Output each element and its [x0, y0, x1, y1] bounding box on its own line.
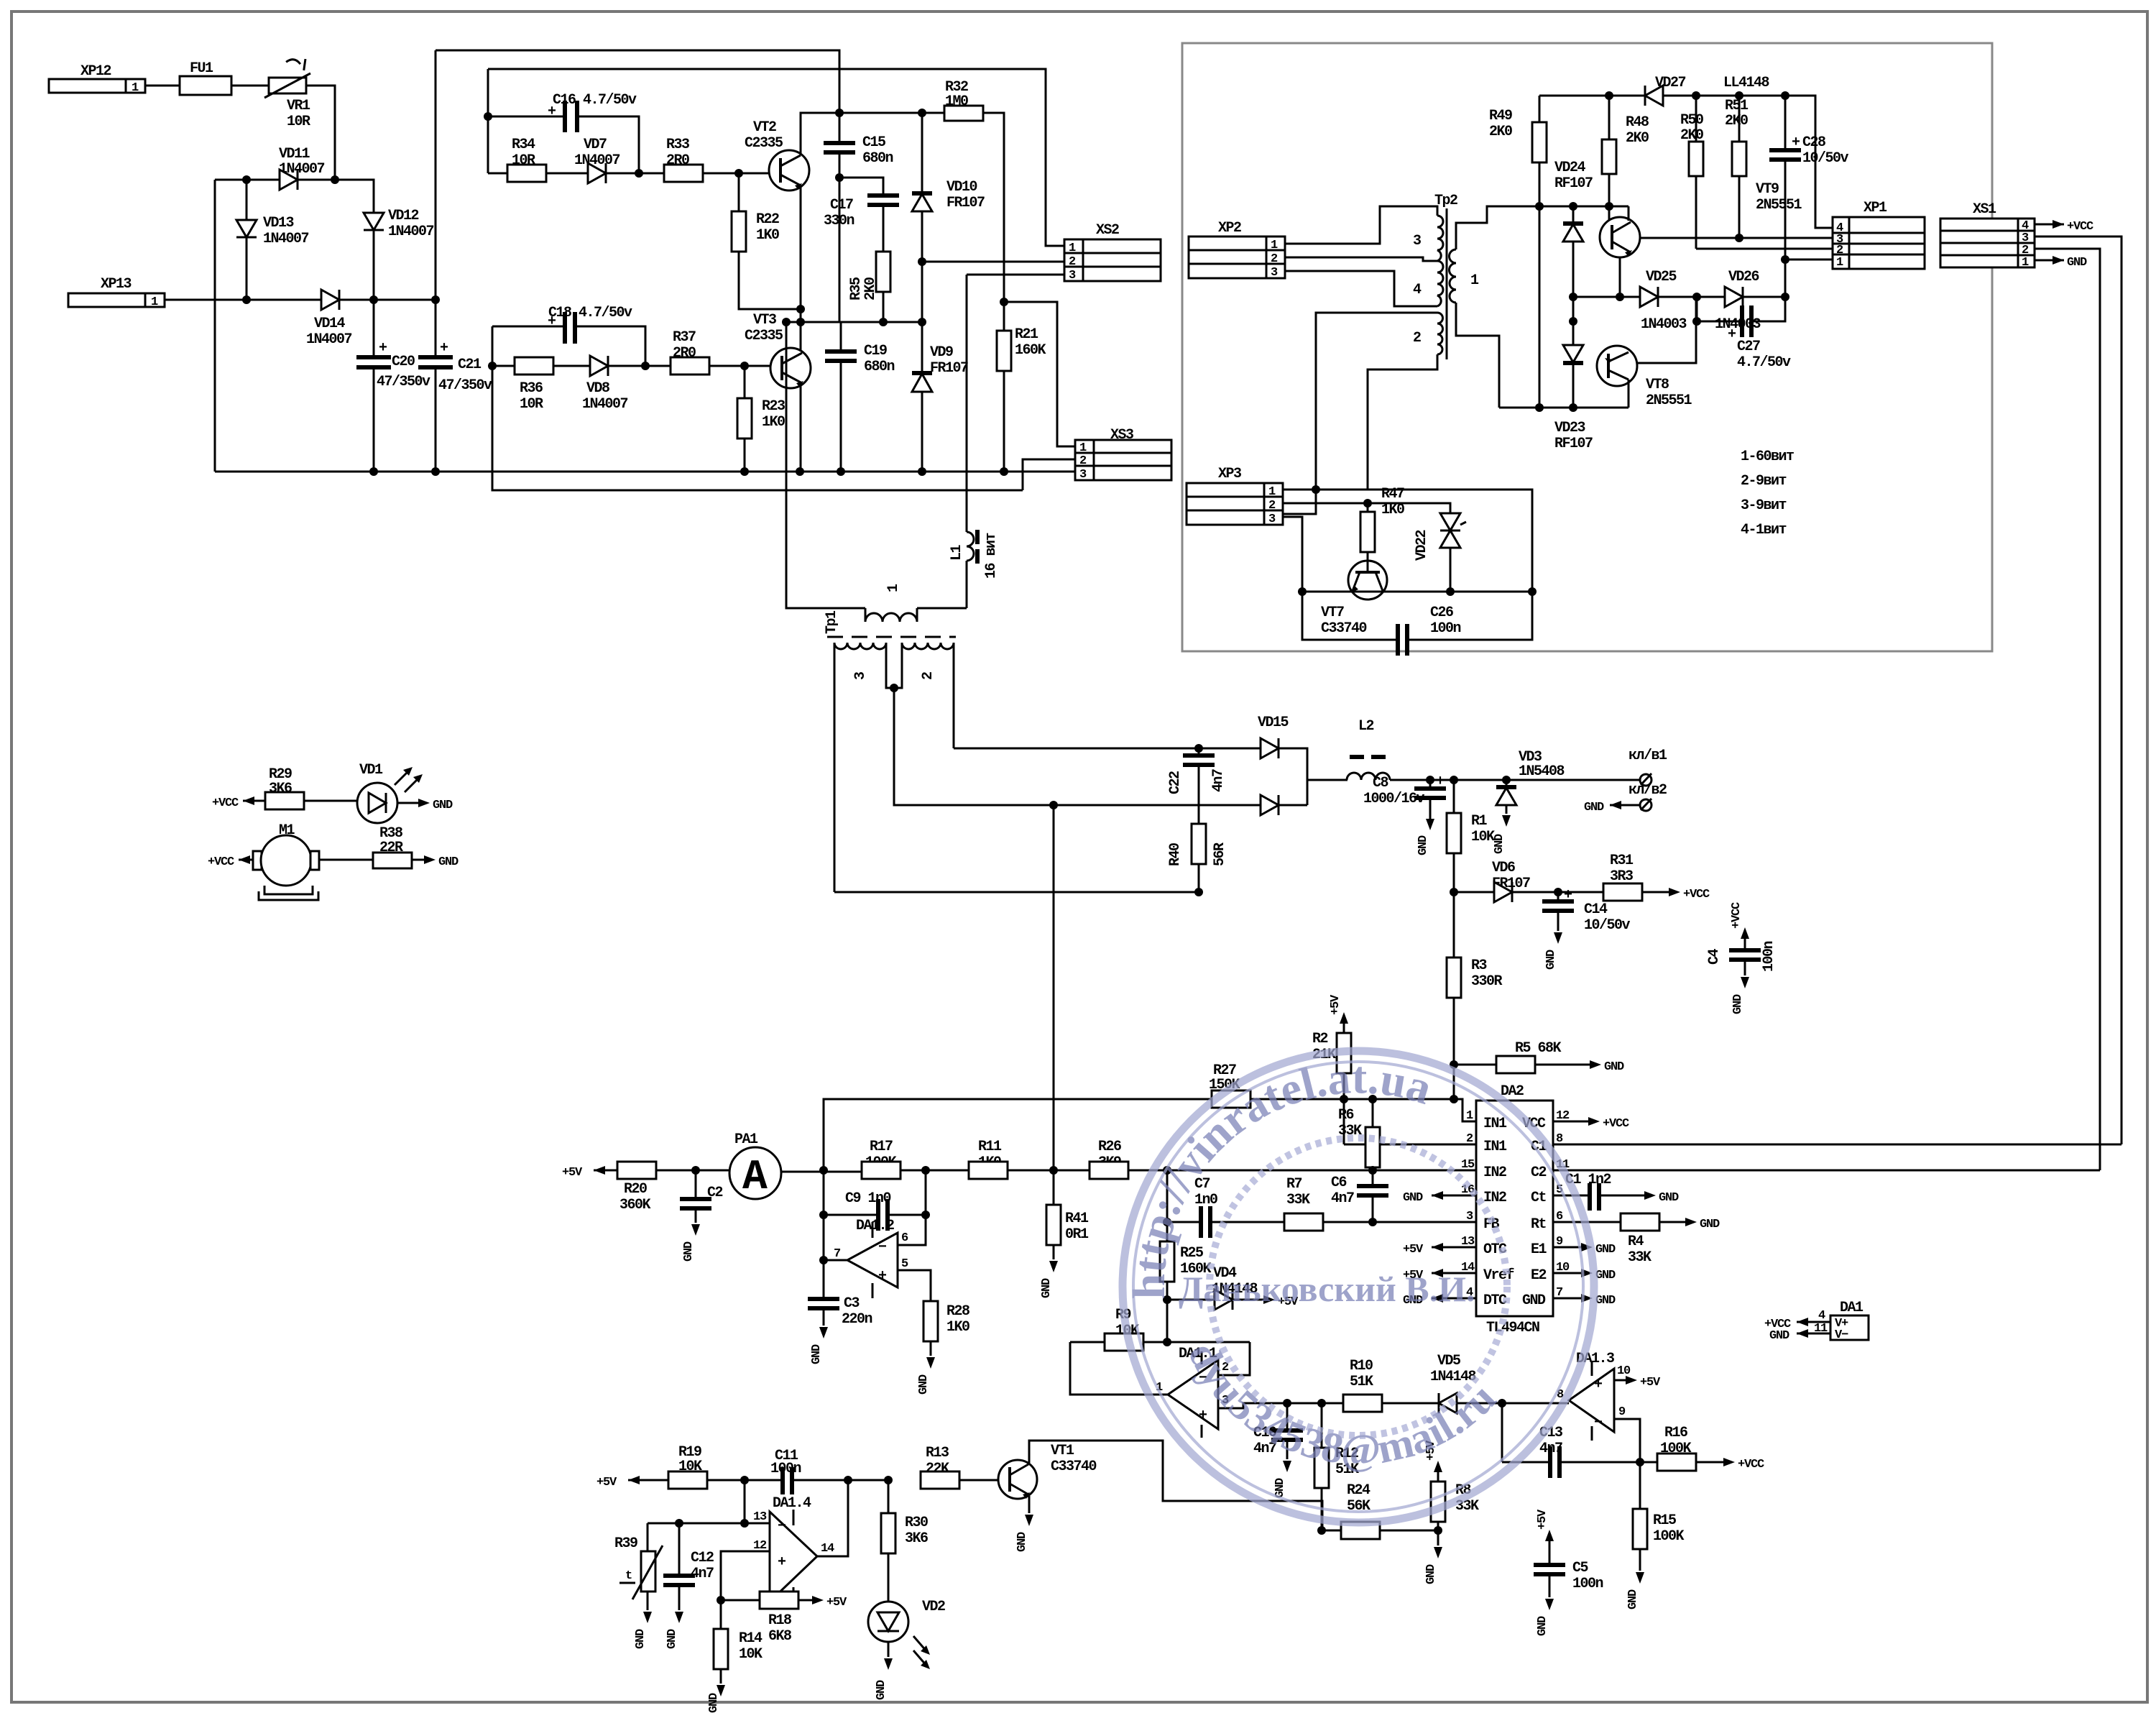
winding 4	[1437, 261, 1443, 306]
capacitor C8 1000/16v	[1363, 773, 1446, 855]
net arrow GND at pin9	[1553, 1243, 1616, 1257]
diode VD11 1N4007	[279, 146, 325, 190]
svg-text:A: A	[742, 1154, 768, 1201]
resistor R28 1K0	[917, 1301, 969, 1395]
svg-text:2: 2	[1069, 255, 1076, 269]
svg-text:GND: GND	[1626, 1589, 1640, 1609]
capacitor C26 100n	[1302, 592, 1532, 656]
wire Tp2 w1 top to rail y287	[1456, 206, 1628, 249]
resistor R11 1K0	[969, 1139, 1089, 1179]
svg-text:1N4003: 1N4003	[1641, 316, 1687, 333]
svg-text:+: +	[1594, 1377, 1603, 1393]
svg-text:VD13: VD13	[263, 215, 294, 231]
wire XP3 pin3 row down	[1283, 517, 1302, 592]
varistor VR1 10R	[264, 56, 310, 130]
resistor R47 1K0	[1360, 486, 1404, 561]
svg-text:VD23: VD23	[1554, 420, 1585, 436]
resistor R27 150K	[1209, 1062, 1250, 1108]
capacitor C3 220n	[808, 1260, 872, 1364]
wire R2 to DA2 pin2	[1344, 1144, 1476, 1146]
resistor R36 10R	[492, 357, 590, 413]
svg-text:160K: 160K	[1015, 342, 1046, 359]
svg-text:6: 6	[901, 1231, 908, 1245]
wire XS1 pin2 to DA2 C2	[2035, 249, 2100, 1170]
svg-text:4n7: 4n7	[1331, 1190, 1354, 1207]
wire XS2 pin3 rail y382	[967, 274, 1064, 276]
svg-text:1K0: 1K0	[762, 414, 785, 431]
svg-text:+5V: +5V	[1329, 994, 1342, 1015]
svg-text:кл/в2: кл/в2	[1628, 782, 1667, 799]
capacitor C4 100n	[1706, 902, 1777, 1014]
svg-text:XP13: XP13	[101, 276, 132, 293]
svg-text:+5V: +5V	[1403, 1243, 1424, 1257]
svg-text:C4: C4	[1706, 948, 1723, 965]
svg-text:VT3: VT3	[753, 312, 776, 329]
svg-text:XP3: XP3	[1218, 466, 1241, 482]
svg-text:C15: C15	[862, 134, 885, 151]
svg-text:R39: R39	[614, 1535, 637, 1552]
svg-text:10R: 10R	[287, 114, 310, 130]
svg-text:2: 2	[920, 672, 936, 680]
svg-text:+: +	[778, 1554, 786, 1571]
svg-text:C2: C2	[1531, 1165, 1547, 1181]
svg-text:1-60вит: 1-60вит	[1741, 449, 1794, 465]
svg-text:4: 4	[1818, 1309, 1825, 1323]
svg-text:XP12: XP12	[80, 63, 111, 80]
svg-text:+5V: +5V	[1640, 1376, 1661, 1390]
svg-text:Tp1: Tp1	[824, 610, 840, 634]
resistor R15 100K	[1626, 1462, 1685, 1609]
svg-text:VT7: VT7	[1321, 605, 1344, 621]
svg-text:GND: GND	[634, 1629, 648, 1649]
resistor R23 1K0	[737, 366, 785, 472]
svg-text:1: 1	[151, 295, 158, 309]
svg-text:R4: R4	[1628, 1234, 1644, 1250]
svg-text:C5: C5	[1572, 1560, 1588, 1576]
resistor R6 33K	[1338, 1099, 1380, 1222]
svg-text:33K: 33K	[1628, 1249, 1651, 1266]
svg-text:+: +	[1728, 326, 1736, 343]
svg-text:2N5551: 2N5551	[1756, 197, 1802, 213]
resistor R14 10K	[707, 1600, 763, 1713]
svg-text:3: 3	[1466, 1210, 1473, 1223]
diode VD25 1N4003	[1640, 269, 1725, 333]
winding3 left lead down	[834, 643, 836, 892]
svg-text:XP2: XP2	[1218, 220, 1241, 236]
svg-text:1: 1	[1470, 272, 1479, 289]
svg-text:1K0: 1K0	[946, 1319, 969, 1336]
wire XS1 pin3 to DA2 C1	[2035, 236, 2122, 1144]
frame box of converter unit	[1182, 43, 1992, 651]
svg-text:3: 3	[1268, 513, 1276, 526]
svg-text:4.7/50v: 4.7/50v	[1737, 354, 1791, 371]
wire XP13 rail	[165, 299, 321, 301]
bottom rail y656	[215, 471, 1075, 473]
svg-text:2K0: 2K0	[1489, 124, 1512, 140]
rail DA2 pin1 y1529	[824, 1099, 1212, 1170]
svg-text:+: +	[379, 340, 387, 357]
svg-text:GND: GND	[433, 799, 453, 812]
svg-text:0R1: 0R1	[1065, 1226, 1089, 1243]
connector XP13	[68, 276, 165, 309]
svg-text:+VCC: +VCC	[1683, 888, 1710, 901]
svg-text:1N4007: 1N4007	[582, 396, 628, 413]
capacitor C13 4n7	[1502, 1403, 1657, 1478]
svg-text:GND: GND	[1536, 1616, 1549, 1636]
svg-text:GND: GND	[665, 1629, 679, 1649]
svg-text:−: −	[878, 1239, 887, 1256]
svg-text:DA1.4: DA1.4	[773, 1495, 811, 1512]
diode VD15 lower	[1239, 795, 1307, 815]
svg-text:GND: GND	[875, 1680, 888, 1700]
op-amp DA1.4	[721, 1480, 848, 1604]
svg-text:+: +	[878, 1268, 887, 1285]
rail IN2 y1628 from R26 to DA2	[1128, 1170, 1476, 1172]
resistor R48 2K0	[1602, 96, 1649, 229]
svg-text:R13: R13	[926, 1445, 949, 1461]
svg-text:LL4148: LL4148	[1723, 75, 1769, 91]
svg-text:t: t	[625, 1569, 632, 1583]
rail y1241	[834, 891, 1199, 894]
svg-text:10K: 10K	[1471, 829, 1495, 845]
resistor R18 6K8	[717, 1592, 847, 1645]
svg-text:1K0: 1K0	[756, 227, 779, 244]
svg-text:R40: R40	[1167, 843, 1184, 866]
net arrow GND at pin16	[1403, 1191, 1476, 1205]
svg-text:1K0: 1K0	[1381, 502, 1404, 518]
svg-text:56R: 56R	[1212, 842, 1228, 866]
IC DA1 power box	[1764, 1300, 1869, 1343]
svg-text:C3: C3	[844, 1295, 860, 1312]
capacitor C17 330n	[824, 178, 899, 252]
wire XP3 pin2 row	[1283, 503, 1450, 513]
svg-text:2K0: 2K0	[1725, 113, 1748, 129]
wire VR1 to bridge node	[306, 86, 335, 180]
diode VD26 1N4003	[1715, 269, 1785, 333]
net arrow +VCC at pin12	[1553, 1117, 1629, 1131]
op-amp DA1.3	[1557, 1351, 1661, 1462]
fuse FU1	[180, 60, 231, 95]
svg-text:GND: GND	[1700, 1218, 1720, 1231]
svg-text:R25: R25	[1180, 1245, 1203, 1262]
svg-text:R10: R10	[1350, 1358, 1373, 1374]
resistor R17 100K	[862, 1139, 969, 1179]
wire XP2 pin1 to Tp2 w3	[1285, 206, 1437, 244]
svg-text:R34: R34	[512, 137, 535, 153]
connector XP2	[1189, 220, 1285, 280]
svg-text:R36: R36	[520, 380, 543, 397]
svg-text:GND: GND	[1595, 1269, 1616, 1282]
wire loop left vertical x679	[487, 69, 489, 173]
wire pin8 C1	[1553, 1144, 2122, 1146]
svg-text:47/350v: 47/350v	[438, 377, 492, 394]
wire top rail of bridge	[215, 179, 280, 181]
svg-text:3-9вит: 3-9вит	[1741, 497, 1787, 514]
svg-text:R50: R50	[1680, 112, 1703, 129]
svg-text:33K: 33K	[1286, 1192, 1310, 1208]
resistor R25 160K	[1160, 1241, 1212, 1342]
svg-text:R48: R48	[1626, 114, 1649, 131]
capacitor C11 100n	[770, 1448, 888, 1494]
wire FU1 to VR1	[231, 85, 269, 87]
svg-text:+VCC: +VCC	[1738, 1458, 1764, 1471]
svg-text:2-9вит: 2-9вит	[1741, 473, 1787, 490]
resistor R19 10K	[668, 1444, 783, 1489]
svg-text:2K0: 2K0	[862, 277, 879, 300]
connector XS2	[1064, 222, 1161, 283]
resistor R49 2K0	[1489, 96, 1547, 408]
resistor R29 3K6	[265, 766, 357, 809]
svg-text:R5 68K: R5 68K	[1515, 1040, 1562, 1057]
svg-text:XS1: XS1	[1973, 201, 1996, 218]
rail half-bridge mid y448	[786, 321, 922, 323]
svg-text:+VCC: +VCC	[1603, 1117, 1629, 1131]
net arrow GND at XS1 pin1	[2035, 256, 2087, 270]
svg-text:51K: 51K	[1350, 1374, 1373, 1390]
resistor R5 68K	[1454, 1040, 1624, 1074]
svg-text:GND: GND	[810, 1344, 824, 1364]
svg-text:R33: R33	[666, 137, 689, 153]
svg-text:+5V: +5V	[562, 1166, 583, 1180]
capacitor C18 4.7/50v	[492, 305, 645, 366]
svg-text:3: 3	[1079, 468, 1087, 482]
winding 2	[902, 643, 954, 649]
svg-text:C17: C17	[830, 197, 853, 213]
net arrow GND at pin7	[1553, 1294, 1616, 1308]
svg-text:C18 4.7/50v: C18 4.7/50v	[548, 305, 632, 321]
svg-text:11: 11	[1814, 1322, 1828, 1336]
svg-text:4: 4	[1413, 282, 1422, 298]
svg-text:2K0: 2K0	[1626, 130, 1649, 147]
svg-text:+5V: +5V	[1536, 1509, 1549, 1530]
resistor R30 3K6	[881, 1480, 928, 1602]
svg-text:3: 3	[1069, 269, 1076, 283]
svg-text:VD11: VD11	[279, 146, 310, 162]
svg-text:VD6: VD6	[1492, 860, 1515, 876]
wire VD25/26 row to XP1 pin2	[1696, 248, 1833, 250]
svg-text:R23: R23	[762, 398, 785, 415]
svg-text:2: 2	[1413, 330, 1421, 346]
svg-text:VD24: VD24	[1554, 160, 1586, 176]
svg-text:VD9: VD9	[930, 344, 953, 361]
svg-text:GND: GND	[1544, 950, 1558, 970]
svg-text:330n: 330n	[824, 213, 854, 229]
svg-text:IN1: IN1	[1483, 1116, 1507, 1132]
wire VD15 output to L2	[1307, 779, 1347, 781]
svg-text:C20: C20	[392, 354, 415, 370]
svg-text:1N4007: 1N4007	[306, 331, 352, 348]
svg-text:IN2: IN2	[1483, 1190, 1506, 1206]
svg-text:+: +	[1199, 1407, 1207, 1424]
svg-text:R37: R37	[673, 329, 696, 346]
net arrow +5V at pin13	[1403, 1243, 1476, 1257]
resistor R32 1M0	[944, 79, 1004, 302]
svg-text:100K: 100K	[1653, 1528, 1685, 1545]
svg-text:2: 2	[1268, 499, 1276, 513]
svg-text:IN1: IN1	[1483, 1139, 1507, 1155]
svg-text:R3: R3	[1471, 957, 1487, 974]
svg-text:GND: GND	[1604, 1060, 1624, 1074]
svg-text:3K6: 3K6	[905, 1530, 928, 1547]
transistor VT7 C33740	[1321, 561, 1387, 637]
resistor R38 22R	[373, 825, 459, 869]
svg-text:E1: E1	[1531, 1241, 1547, 1258]
svg-text:GND: GND	[2067, 256, 2087, 270]
svg-text:+: +	[1564, 887, 1572, 904]
diode VD6 FR107	[1454, 860, 1603, 902]
svg-text:100n: 100n	[1430, 620, 1461, 637]
svg-text:VD14: VD14	[314, 316, 346, 332]
svg-text:GND: GND	[1731, 994, 1745, 1014]
svg-text:GND: GND	[1659, 1191, 1679, 1205]
capacitor C21 47/350v	[418, 340, 492, 394]
svg-text:DA1: DA1	[1840, 1300, 1864, 1316]
svg-text:C21: C21	[458, 357, 482, 373]
rail FB y1700	[1167, 1221, 1201, 1223]
winding 3	[834, 643, 886, 649]
wire top rail y70	[436, 50, 839, 113]
svg-text:FU1: FU1	[190, 60, 213, 77]
resistor R24 56K	[1341, 1482, 1438, 1539]
svg-text:GND: GND	[1584, 801, 1604, 814]
svg-text:680n: 680n	[864, 359, 895, 375]
capacitor C6 4n7	[1331, 1175, 1388, 1207]
resistor R12 51K	[1314, 1403, 1359, 1530]
resistor R7 33K	[1284, 1176, 1323, 1231]
triac VD22	[1414, 513, 1466, 592]
svg-text:VD5: VD5	[1437, 1353, 1460, 1369]
svg-text:16 вит: 16 вит	[983, 533, 1000, 579]
svg-text:PA1: PA1	[734, 1131, 758, 1148]
svg-text:1: 1	[885, 584, 902, 592]
capacitor C19 680n	[825, 322, 895, 472]
transistor VT8 2N5551	[1597, 297, 1696, 409]
svg-text:R51: R51	[1725, 98, 1749, 114]
motor M1	[208, 822, 373, 900]
svg-text:13: 13	[753, 1510, 767, 1524]
svg-text:3: 3	[1271, 266, 1278, 280]
resistor R13 22K	[921, 1445, 999, 1489]
svg-text:R20: R20	[624, 1181, 647, 1198]
capacitor C16 4.7/50v	[488, 92, 639, 173]
svg-text:+5V: +5V	[596, 1476, 617, 1489]
watermark stamp	[1123, 1051, 1594, 1523]
svg-text:VD10: VD10	[946, 179, 977, 196]
diode VD27 LL4148	[1645, 75, 1769, 106]
svg-text:VD8: VD8	[586, 380, 609, 397]
wire C11 node down to pin13	[744, 1480, 746, 1523]
svg-text:кл/в1: кл/в1	[1628, 748, 1667, 764]
svg-text:VT8: VT8	[1646, 377, 1669, 393]
svg-text:GND: GND	[1403, 1191, 1423, 1205]
svg-text:1: 1	[2022, 256, 2029, 270]
svg-text:C19: C19	[864, 343, 887, 359]
wire rail y96 to XS2 pin1	[488, 69, 1064, 246]
capacitor C9 1n0	[824, 1170, 926, 1260]
connector XP3	[1187, 466, 1283, 526]
svg-text:L2: L2	[1358, 718, 1374, 735]
ammeter PA1	[729, 1131, 862, 1201]
winding 1	[865, 613, 917, 622]
wire center-tap shunt column x1466	[1053, 805, 1055, 1205]
svg-text:680n: 680n	[862, 150, 893, 167]
svg-text:VD25: VD25	[1646, 269, 1677, 285]
net arrow GND at pin10	[1553, 1269, 1616, 1282]
center tap	[886, 643, 902, 688]
op-amp DA1.1	[1070, 1342, 1287, 1438]
svg-text:R14: R14	[739, 1630, 763, 1647]
svg-text:R21: R21	[1015, 326, 1038, 343]
thermistor R39	[614, 1523, 663, 1649]
svg-text:1N4007: 1N4007	[388, 224, 434, 240]
svg-text:R28: R28	[946, 1303, 969, 1320]
wire R21 node to XS3 pin1	[1004, 302, 1075, 446]
transistor VT3 C2335	[745, 312, 811, 472]
svg-text:C14: C14	[1584, 901, 1608, 918]
svg-text:2: 2	[1079, 454, 1087, 468]
svg-text:R47: R47	[1381, 486, 1404, 502]
svg-text:GND: GND	[1416, 835, 1430, 855]
capacitor C15 680n	[824, 113, 893, 322]
winding note	[1741, 449, 1794, 538]
resistor R21 160K	[997, 298, 1046, 472]
svg-text:+5V: +5V	[826, 1596, 847, 1609]
capacitor C2	[680, 1170, 723, 1262]
svg-text:2: 2	[1271, 252, 1278, 266]
svg-text:R11: R11	[978, 1139, 1002, 1155]
svg-text:R26: R26	[1098, 1139, 1121, 1155]
svg-text:C8: C8	[1373, 775, 1388, 791]
svg-text:+: +	[440, 340, 448, 357]
svg-text:C33740: C33740	[1051, 1459, 1097, 1475]
svg-text:GND: GND	[917, 1374, 931, 1395]
svg-text:1: 1	[1271, 239, 1278, 252]
svg-text:E2: E2	[1531, 1267, 1547, 1284]
wire Tp2 w2 bottom to XP3 pin1	[1283, 354, 1437, 490]
svg-text:GND: GND	[438, 855, 459, 869]
svg-text:L1: L1	[949, 544, 965, 561]
LED VD1	[357, 762, 453, 823]
rail y287	[1535, 202, 1544, 211]
svg-text:1: 1	[1466, 1109, 1473, 1123]
svg-text:1: 1	[132, 81, 139, 95]
svg-text:+: +	[1436, 773, 1445, 790]
net arrow +5V at R20	[562, 1166, 617, 1180]
wire XP3 pin1 row	[1283, 489, 1316, 491]
svg-text:C33740: C33740	[1321, 620, 1367, 637]
capacitor C22 4n7	[1167, 748, 1227, 824]
diode VD9 FR107	[912, 262, 968, 472]
svg-text:14: 14	[821, 1542, 834, 1556]
svg-text:1N4007: 1N4007	[263, 231, 309, 247]
svg-text:R24: R24	[1347, 1482, 1370, 1499]
transformer Tp2	[1413, 193, 1479, 359]
svg-text:R16: R16	[1664, 1425, 1687, 1441]
svg-text:−: −	[1594, 1415, 1603, 1431]
svg-text:1N5408: 1N5408	[1519, 763, 1565, 780]
diode VD13 1N4007	[236, 180, 309, 300]
resistor R37 2R0	[671, 329, 770, 375]
svg-text:C6: C6	[1331, 1175, 1347, 1191]
resistor R34 10R	[488, 137, 588, 182]
svg-text:+VCC: +VCC	[208, 855, 234, 869]
svg-text:C26: C26	[1430, 605, 1453, 621]
svg-text:360K: 360K	[619, 1197, 651, 1213]
svg-text:1: 1	[1268, 485, 1276, 499]
inductor L2	[1347, 718, 1641, 780]
wire XP12 to FU1	[145, 85, 180, 87]
svg-text:GND: GND	[1595, 1243, 1616, 1257]
